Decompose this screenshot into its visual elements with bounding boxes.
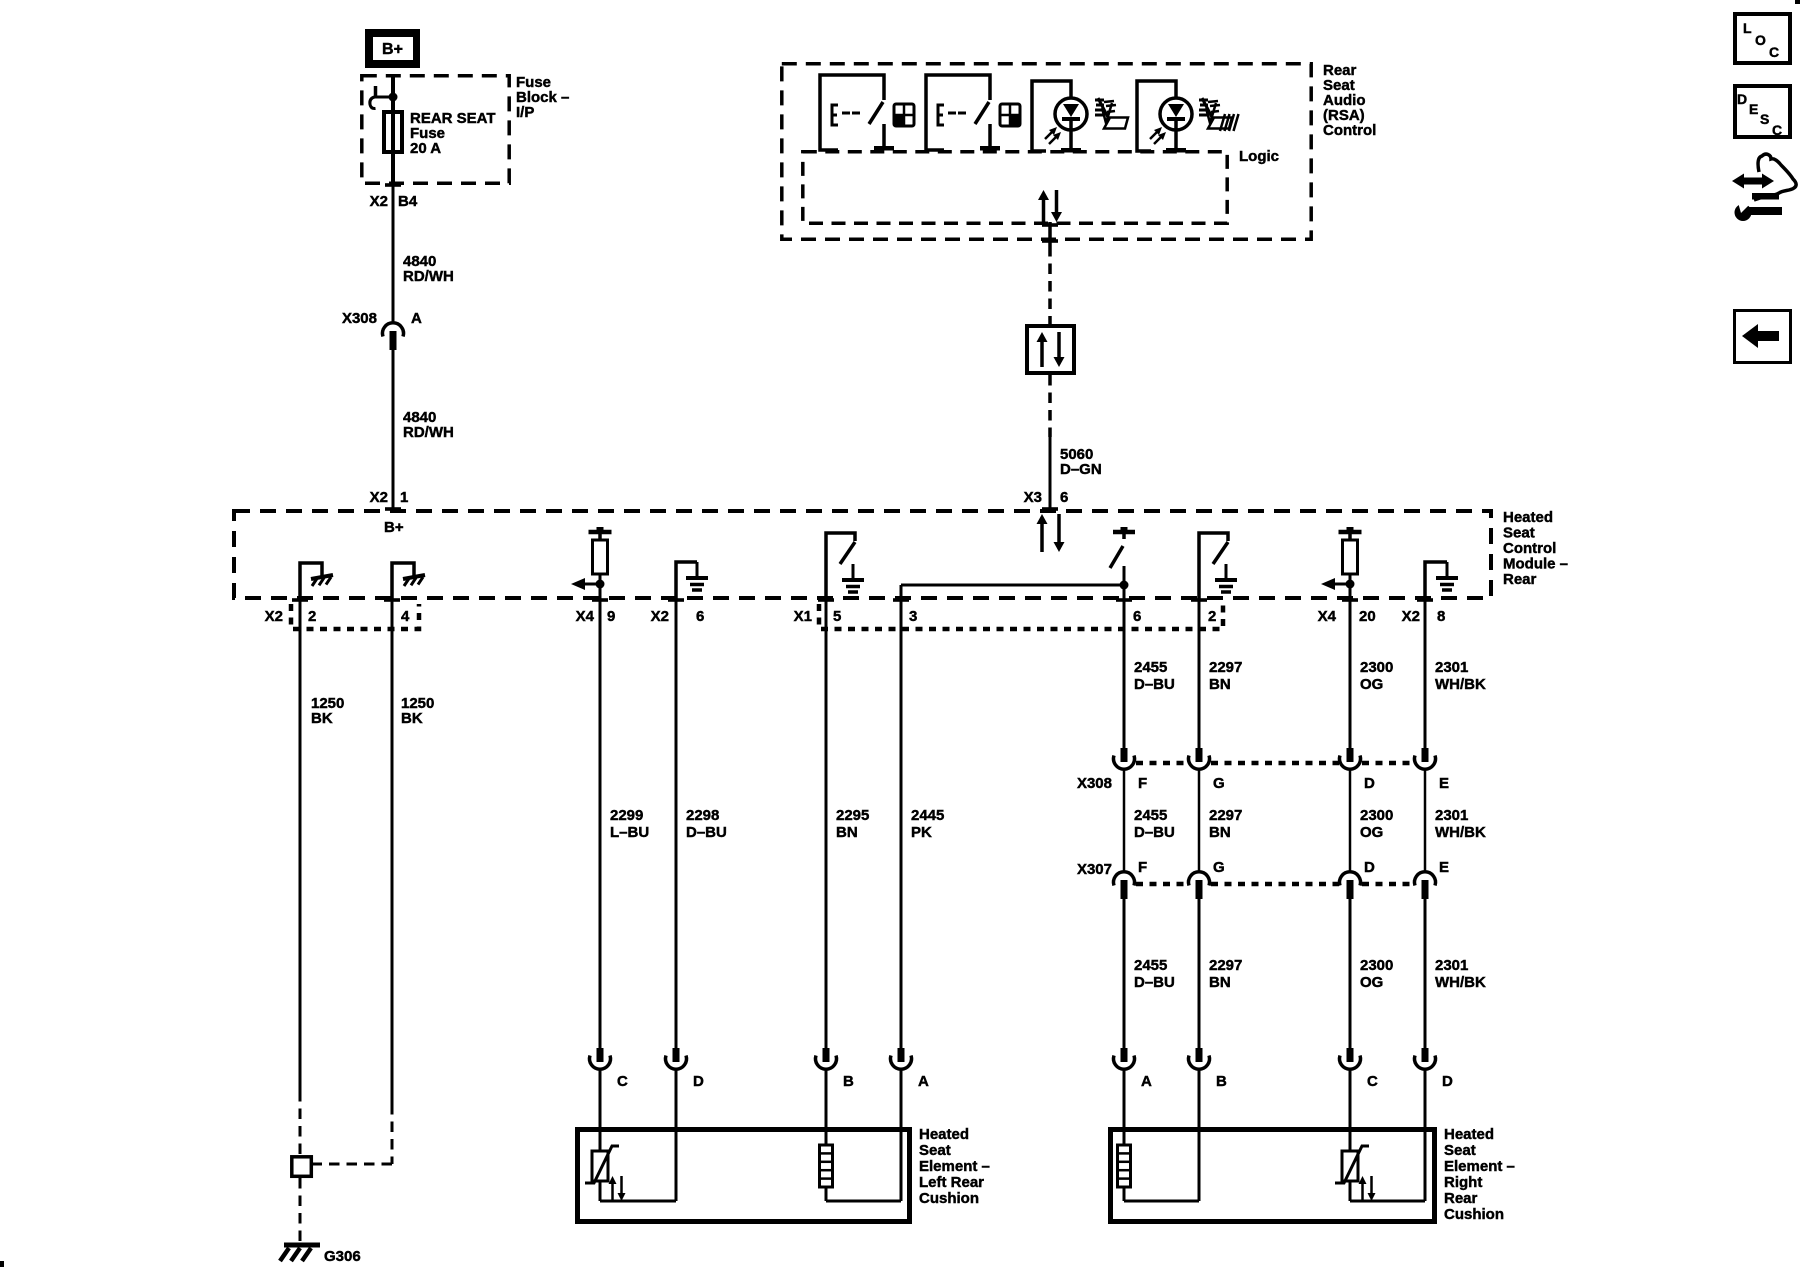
- wire into right element: [1123, 1069, 1126, 1130]
- wire 1250 BK pin 2: [299, 600, 302, 1091]
- wire 2295 BN: [825, 600, 828, 1048]
- wire into left element: [599, 1069, 602, 1130]
- svg-text:A: A: [1141, 1073, 1152, 1090]
- svg-text:E: E: [1439, 859, 1449, 876]
- svg-text:6: 6: [1133, 608, 1141, 625]
- svg-text:20 A: 20 A: [410, 140, 441, 157]
- svg-text:2297: 2297: [1209, 957, 1242, 974]
- svg-text:2300: 2300: [1360, 659, 1393, 676]
- svg-text:D–BU: D–BU: [1134, 824, 1175, 841]
- svg-text:B4: B4: [398, 193, 418, 210]
- svg-text:B: B: [1216, 1073, 1227, 1090]
- module pin crossing ticks: [292, 598, 308, 602]
- ground G306: [284, 1243, 320, 1248]
- left element thermistor return wire: [600, 1200, 676, 1203]
- svg-text:WH/BK: WH/BK: [1435, 974, 1486, 991]
- svg-text:Rear: Rear: [1444, 1190, 1478, 1207]
- svg-text:Heated: Heated: [1444, 1126, 1494, 1143]
- right thermistor direction arrows: [1361, 1182, 1364, 1201]
- svg-text:X2: X2: [1402, 608, 1420, 625]
- window position icon right: [1000, 104, 1020, 126]
- wire 2455 D–BU X307 to element: [1123, 899, 1126, 1048]
- svg-text:D: D: [1364, 775, 1375, 792]
- svg-text:C: C: [1772, 122, 1782, 138]
- wire 2445 PK: [900, 600, 903, 1048]
- serial data symbol: [1027, 326, 1074, 373]
- svg-text:2295: 2295: [836, 807, 869, 824]
- svg-text:B+: B+: [384, 519, 404, 536]
- svg-text:Logic: Logic: [1239, 148, 1279, 165]
- svg-text:Element –: Element –: [919, 1158, 990, 1175]
- page corner mark top right: [1795, 0, 1800, 4]
- svg-text:RD/WH: RD/WH: [403, 268, 454, 285]
- left element heater return wire: [826, 1200, 901, 1203]
- connector terminal B left element: [823, 1048, 830, 1062]
- svg-text:2455: 2455: [1134, 659, 1167, 676]
- svg-text:Element –: Element –: [1444, 1158, 1515, 1175]
- svg-text:C: C: [1769, 44, 1779, 60]
- svg-text:X2: X2: [370, 193, 388, 210]
- Rear Seat Audio (RSA) Control dashed box: [782, 64, 1311, 239]
- svg-text:2445: 2445: [911, 807, 944, 824]
- connector X308 terminal G: [1196, 748, 1203, 762]
- wire 2301 WH/BK X308 to X307: [1424, 769, 1427, 872]
- connector terminal C left element: [597, 1048, 604, 1062]
- svg-text:B: B: [843, 1073, 854, 1090]
- svg-text:X4: X4: [576, 608, 595, 625]
- wire into right element: [1424, 1069, 1427, 1130]
- connector terminal C right element: [1347, 1048, 1354, 1062]
- X308 connector dotted lines: [1136, 761, 1188, 766]
- left element thermistor: [599, 1130, 602, 1151]
- pin crossing tick X2-1: [385, 507, 401, 511]
- wire 2301 WH/BK X307 to element: [1424, 899, 1427, 1048]
- svg-text:Module –: Module –: [1503, 556, 1568, 573]
- svg-text:OG: OG: [1360, 676, 1383, 693]
- svg-text:G: G: [1213, 775, 1225, 792]
- dashed wire to splice right: [391, 1104, 394, 1164]
- module thermistor pull-up / sense pin X4-9: [597, 527, 604, 531]
- left thermistor direction arrows: [611, 1182, 614, 1201]
- back arrow icon box: [1735, 311, 1791, 363]
- connector terminal A right element: [1121, 1048, 1128, 1062]
- svg-text:X1: X1: [794, 608, 812, 625]
- wire 2455 D–BU X308 to X307: [1123, 769, 1126, 872]
- svg-text:6: 6: [1060, 489, 1068, 506]
- svg-text:1: 1: [400, 489, 408, 506]
- wire 2455 D–BU module to X308: [1123, 600, 1126, 748]
- wire 2298 D–BU: [675, 600, 678, 1048]
- svg-text:2455: 2455: [1134, 807, 1167, 824]
- connector X308 terminal D: [1347, 748, 1354, 762]
- svg-text:E: E: [1439, 775, 1449, 792]
- dashed wire to splice left: [299, 1091, 302, 1155]
- svg-text:Cushion: Cushion: [919, 1190, 979, 1207]
- RSA right seat switch: [926, 75, 990, 150]
- dashed wire splice horizontal: [313, 1163, 392, 1166]
- svg-text:F: F: [1138, 775, 1147, 792]
- wire 5060 D-GN: [1049, 437, 1052, 509]
- wire 2300 OG X308 to X307: [1349, 769, 1352, 872]
- RSA left seat switch: [820, 75, 884, 150]
- svg-text:A: A: [411, 310, 422, 327]
- svg-text:E: E: [1749, 101, 1758, 117]
- module switch pin X1-6: [1121, 527, 1128, 531]
- svg-text:2: 2: [1208, 608, 1216, 625]
- svg-text:8: 8: [1437, 608, 1445, 625]
- seat icon left: [1095, 99, 1104, 102]
- svg-text:2301: 2301: [1435, 659, 1468, 676]
- B+ power symbol: [365, 29, 420, 68]
- wire 2299 L–BU: [599, 600, 602, 1048]
- svg-text:OG: OG: [1360, 824, 1383, 841]
- svg-text:L–BU: L–BU: [610, 824, 649, 841]
- wire logic to RSA edge: [1048, 222, 1052, 246]
- svg-text:Heated: Heated: [1503, 509, 1553, 526]
- wire into right element: [1349, 1069, 1352, 1130]
- inline connector X308 pin A: [383, 323, 404, 337]
- wire 2297 BN module to X308: [1198, 600, 1201, 748]
- svg-text:D–BU: D–BU: [1134, 974, 1175, 991]
- svg-text:4: 4: [401, 608, 410, 625]
- svg-text:Right: Right: [1444, 1174, 1482, 1191]
- svg-text:2299: 2299: [610, 807, 643, 824]
- wire 2301 WH/BK module to X308: [1424, 600, 1427, 748]
- svg-text:Control: Control: [1503, 540, 1556, 557]
- Logic dashed box: [803, 152, 1227, 223]
- Heated Seat Control Module - Rear dashed box: [234, 511, 1491, 598]
- svg-text:2300: 2300: [1360, 957, 1393, 974]
- wire 2300 OG X307 to element: [1349, 899, 1352, 1048]
- svg-text:A: A: [918, 1073, 929, 1090]
- Fuse Block - I/P dashed box: [362, 76, 509, 183]
- left element heater: [825, 1130, 828, 1145]
- right element thermistor return wire: [1350, 1200, 1425, 1203]
- fuse block terminal tap: [374, 86, 378, 98]
- connector terminal D left element: [673, 1048, 680, 1062]
- svg-text:2300: 2300: [1360, 807, 1393, 824]
- svg-text:BN: BN: [1209, 974, 1231, 991]
- connector X1 dotted outline: [819, 604, 1223, 629]
- module low-side switch pin X1-2: [1199, 533, 1228, 600]
- svg-text:C: C: [1367, 1073, 1378, 1090]
- wire 1250 BK pin 4: [391, 600, 394, 1104]
- svg-text:O: O: [1755, 32, 1766, 48]
- wire 2297 BN X307 to element: [1198, 899, 1201, 1048]
- svg-text:2298: 2298: [686, 807, 719, 824]
- wire 2297 BN X308 to X307: [1198, 769, 1201, 872]
- svg-text:B+: B+: [382, 41, 403, 58]
- svg-text:Control: Control: [1323, 122, 1376, 139]
- right element thermistor: [1349, 1130, 1352, 1151]
- svg-text:BK: BK: [311, 710, 333, 727]
- svg-text:I/P: I/P: [516, 104, 534, 121]
- svg-text:X2: X2: [265, 608, 283, 625]
- svg-text:Seat: Seat: [919, 1142, 951, 1159]
- svg-text:G: G: [1213, 859, 1225, 876]
- connector terminal B right element: [1196, 1048, 1203, 1062]
- svg-text:OG: OG: [1360, 974, 1383, 991]
- svg-text:Heated: Heated: [919, 1126, 969, 1143]
- right element heater return wire: [1124, 1200, 1199, 1203]
- wire 4840 RD/WH lower segment: [392, 350, 395, 509]
- RSA right indicator LED: [1137, 81, 1176, 151]
- svg-text:D: D: [1442, 1073, 1453, 1090]
- svg-text:BN: BN: [836, 824, 858, 841]
- Heated Seat Element - Right Rear Cushion box: [1111, 1130, 1435, 1222]
- svg-text:X4: X4: [1318, 608, 1337, 625]
- DESC icon box: [1735, 86, 1790, 137]
- svg-text:F: F: [1138, 859, 1147, 876]
- dashed wire splice to ground: [299, 1178, 302, 1243]
- svg-text:D: D: [1737, 91, 1747, 107]
- electrical repair icon: [1754, 154, 1796, 200]
- svg-text:X3: X3: [1024, 489, 1042, 506]
- svg-text:G306: G306: [324, 1248, 361, 1265]
- wire into left element: [675, 1069, 678, 1130]
- svg-text:D: D: [693, 1073, 704, 1090]
- svg-text:RD/WH: RD/WH: [403, 424, 454, 441]
- svg-text:2301: 2301: [1435, 957, 1468, 974]
- svg-text:D–GN: D–GN: [1060, 461, 1102, 478]
- svg-text:BN: BN: [1209, 824, 1231, 841]
- module ground output pin X2-4: [392, 563, 414, 600]
- wire B+ feed into fuse block: [391, 74, 395, 112]
- heated seat icon right: [1199, 99, 1208, 102]
- wire into right element: [1198, 1069, 1201, 1130]
- svg-text:X307: X307: [1077, 861, 1112, 878]
- svg-text:Seat: Seat: [1503, 525, 1535, 542]
- module low-side switch pin X1-5: [826, 533, 855, 600]
- svg-text:WH/BK: WH/BK: [1435, 676, 1486, 693]
- svg-text:5: 5: [833, 608, 841, 625]
- splice S-box: [292, 1157, 312, 1177]
- svg-text:C: C: [617, 1073, 628, 1090]
- junction dot at fuse feed: [389, 93, 398, 102]
- svg-text:Seat: Seat: [1444, 1142, 1476, 1159]
- window position icon left: [894, 104, 914, 126]
- svg-text:2297: 2297: [1209, 659, 1242, 676]
- connector terminal D right element: [1422, 1048, 1429, 1062]
- svg-text:D–BU: D–BU: [686, 824, 727, 841]
- wire 4840 RD/WH upper segment: [392, 186, 395, 322]
- Heated Seat Element - Left Rear Cushion box: [578, 1130, 910, 1222]
- pin crossing tick X2 B4: [385, 183, 401, 187]
- module ground pin X2-8: [1425, 562, 1447, 600]
- serial data arrows at X3-6: [1040, 522, 1044, 552]
- serial data arrows in logic box: [1042, 198, 1046, 222]
- svg-text:BN: BN: [1209, 676, 1231, 693]
- module ground output pin X2-2: [300, 563, 322, 600]
- svg-text:Cushion: Cushion: [1444, 1206, 1504, 1223]
- svg-text:9: 9: [607, 608, 615, 625]
- RSA left indicator LED: [1032, 81, 1071, 151]
- svg-text:D: D: [1364, 859, 1375, 876]
- pin crossing tick X3-6: [1042, 507, 1058, 511]
- svg-text:PK: PK: [911, 824, 932, 841]
- svg-text:3: 3: [909, 608, 917, 625]
- svg-text:X2: X2: [370, 489, 388, 506]
- connector terminal A left element: [898, 1048, 905, 1062]
- LOC icon box: [1735, 14, 1790, 63]
- svg-text:2: 2: [308, 608, 316, 625]
- svg-text:S: S: [1760, 111, 1769, 127]
- module thermistor pull-up / sense pin X4-20: [1347, 527, 1354, 531]
- connector X308 terminal E: [1422, 748, 1429, 762]
- svg-text:2297: 2297: [1209, 807, 1242, 824]
- page corner mark bottom left: [0, 1261, 4, 1267]
- X307 connector dotted lines: [1136, 882, 1188, 887]
- svg-text:2455: 2455: [1134, 957, 1167, 974]
- connector X308 terminal F: [1121, 748, 1128, 762]
- svg-text:Left Rear: Left Rear: [919, 1174, 984, 1191]
- svg-text:X308: X308: [1077, 775, 1112, 792]
- wire 2300 OG module to X308: [1349, 600, 1352, 748]
- svg-text:L: L: [1743, 20, 1752, 36]
- module sense wire pin X1-3: [900, 585, 903, 600]
- svg-text:6: 6: [696, 608, 704, 625]
- serial data dashed wire lower: [1048, 375, 1052, 437]
- connector X2 dotted outline: [291, 604, 419, 629]
- fuse REAR SEAT 20A: [384, 112, 402, 152]
- wire into left element: [825, 1069, 828, 1130]
- svg-text:BK: BK: [401, 710, 423, 727]
- svg-text:20: 20: [1359, 608, 1376, 625]
- svg-text:Rear: Rear: [1503, 571, 1537, 588]
- svg-text:X308: X308: [342, 310, 377, 327]
- right element heater: [1123, 1130, 1126, 1145]
- svg-text:D–BU: D–BU: [1134, 676, 1175, 693]
- serial data dashed wire upper: [1048, 246, 1052, 324]
- svg-text:2301: 2301: [1435, 807, 1468, 824]
- module ground pin X2-6: [676, 562, 697, 600]
- svg-text:X2: X2: [651, 608, 669, 625]
- svg-text:WH/BK: WH/BK: [1435, 824, 1486, 841]
- wire into left element: [900, 1069, 903, 1130]
